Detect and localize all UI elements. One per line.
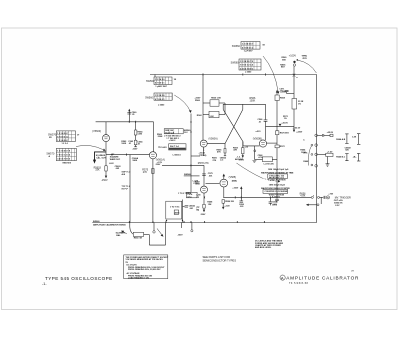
svg-text:5W560: 5W560 bbox=[145, 96, 153, 99]
wire cathode down bbox=[203, 147, 205, 156]
wire stub bbox=[191, 155, 200, 157]
svg-text:6 7 8 9 0 1: 6 7 8 9 0 1 bbox=[155, 83, 165, 85]
resistor R571 33.3k bbox=[292, 99, 297, 110]
svg-text:27K: 27K bbox=[143, 171, 148, 174]
svg-text:+2.4V: +2.4V bbox=[224, 204, 230, 207]
capacitor below bus A bbox=[275, 198, 279, 200]
svg-text:33K: 33K bbox=[95, 169, 100, 172]
capacitor C571 bbox=[285, 89, 289, 91]
wire stub down to V1 bbox=[105, 122, 107, 135]
svg-text:+225V: +225V bbox=[296, 131, 303, 133]
svg-text:6 7 8 9 0 1 2: 6 7 8 9 0 1 2 bbox=[57, 136, 69, 138]
svg-text:(V560A): (V560A) bbox=[209, 138, 218, 141]
svg-text:CAL. OUT: CAL. OUT bbox=[96, 157, 106, 160]
svg-text:L-572 5.6K: L-572 5.6K bbox=[264, 163, 275, 165]
svg-text:+103.5V: +103.5V bbox=[293, 127, 301, 129]
resistor right grid leak bbox=[242, 141, 244, 147]
wire output L to arrow bbox=[95, 152, 107, 161]
neon lamp NE56 bbox=[293, 61, 295, 63]
svg-text:1 2 3 4 5 6: 1 2 3 4 5 6 bbox=[155, 78, 165, 81]
switch wafer SW560B bbox=[145, 93, 172, 107]
wire cathode down bbox=[105, 142, 107, 155]
node -150V bbox=[105, 176, 107, 179]
svg-text:+ 560 2: + 560 2 bbox=[169, 140, 177, 142]
svg-text:5V P-P: 5V P-P bbox=[122, 188, 129, 190]
svg-text:+100V: +100V bbox=[232, 187, 239, 189]
svg-text:WAVEFORM SW660 ROTATED: WAVEFORM SW660 ROTATED bbox=[261, 187, 290, 190]
switch wafer top2 bbox=[231, 59, 261, 74]
top bus ticks bbox=[112, 74, 295, 156]
wire corner down to V2 bbox=[153, 122, 155, 152]
svg-text:6 7 8 9 0 1: 6 7 8 9 0 1 bbox=[155, 99, 165, 101]
wire cathode resistor chain bbox=[105, 155, 107, 166]
svg-text:-8.6V: -8.6V bbox=[109, 163, 114, 165]
resistor R660 5K bbox=[133, 232, 143, 236]
ganging curve top2 down bbox=[263, 56, 278, 92]
svg-text:TK 5/45/8-58: TK 5/45/8-58 bbox=[289, 283, 309, 285]
wire V5 to V6 link bbox=[206, 182, 220, 184]
svg-text:TYPE 545 OSCILLOSCOPE: TYPE 545 OSCILLOSCOPE bbox=[45, 276, 113, 281]
svg-text:27K: 27K bbox=[213, 160, 217, 162]
wire cathode down bbox=[203, 193, 205, 204]
svg-text:+25.8V: +25.8V bbox=[327, 132, 334, 134]
switch wafer SW570B bbox=[47, 148, 77, 164]
svg-text:L 5560: L 5560 bbox=[245, 72, 252, 74]
svg-text:-150V: -150V bbox=[200, 214, 206, 216]
svg-text:1 TO 7 KC: 1 TO 7 KC bbox=[170, 207, 180, 209]
switch wiper SW660 bal bbox=[129, 223, 131, 228]
bus junction ticks bbox=[129, 196, 277, 223]
wire bus A output line bbox=[223, 196, 311, 198]
svg-text:1MS 100μS 10μS 1μS: 1MS 100μS 10μS 1μS bbox=[268, 169, 289, 171]
svg-text:1 2 3 4 5 6 7 8: 1 2 3 4 5 6 7 8 bbox=[57, 150, 71, 153]
note box voltage readings bbox=[124, 255, 168, 279]
capacitor C656 bbox=[240, 197, 242, 200]
wire cathode network bbox=[253, 146, 255, 159]
title AMPLITUDE CALIBRATOR with circled A bbox=[280, 275, 285, 280]
svg-text:100K: 100K bbox=[121, 143, 126, 145]
svg-text:1 μSEC 5KC: 1 μSEC 5KC bbox=[155, 86, 167, 88]
svg-text:+41.5V: +41.5V bbox=[281, 122, 288, 125]
svg-text:7 8 9 0 1 2 3 4: 7 8 9 0 1 2 3 4 bbox=[240, 64, 254, 67]
divider tap +25.8V with capacitor C664 bbox=[317, 134, 322, 136]
svg-text:SW570 B: SW570 B bbox=[62, 162, 71, 164]
svg-text:-150V: -150V bbox=[155, 164, 161, 166]
svg-text:SW660: SW660 bbox=[184, 174, 191, 176]
svg-text:(TP560): (TP560) bbox=[199, 155, 207, 157]
svg-text:SW560: SW560 bbox=[146, 80, 155, 83]
ground bbox=[252, 160, 256, 162]
svg-text:-150V: -150V bbox=[132, 148, 138, 150]
svg-text:+75V: +75V bbox=[328, 194, 333, 196]
svg-text:4.7K: 4.7K bbox=[258, 156, 263, 159]
resistor chain R564 C564 bbox=[135, 122, 137, 130]
svg-text:56K: 56K bbox=[282, 59, 286, 61]
svg-text:1.2K: 1.2K bbox=[210, 116, 215, 118]
switch wafer top1 bbox=[232, 42, 266, 53]
svg-text:A-36573: A-36573 bbox=[272, 196, 281, 199]
capacitor C560 on grid bus bbox=[128, 111, 130, 122]
svg-text:47K: 47K bbox=[217, 151, 221, 154]
svg-text:100K: 100K bbox=[250, 100, 256, 103]
wire divider down to bus bbox=[129, 155, 131, 223]
svg-text:AMPLITUDE CALIBRATOR: AMPLITUDE CALIBRATOR bbox=[286, 276, 359, 281]
boxed subcircuit A305 bbox=[166, 201, 182, 219]
wire V6 cathode bbox=[223, 187, 225, 197]
svg-text:5W570: 5W570 bbox=[47, 152, 55, 155]
svg-text:7 8 9 0 1 2 3 4: 7 8 9 0 1 2 3 4 bbox=[57, 154, 71, 157]
switch wafer SW560A bbox=[146, 77, 177, 88]
tube V5 envelope bbox=[201, 186, 208, 193]
ganging curve wafer A down bbox=[174, 95, 190, 111]
svg-text:1 μF 5KV: 1 μF 5KV bbox=[244, 51, 253, 53]
svg-text:3 4 5 6 7 8 9 0: 3 4 5 6 7 8 9 0 bbox=[57, 158, 71, 161]
svg-text:VOLTAGES MEASURED AT PIN JACKS: VOLTAGES MEASURED AT PIN JACKS bbox=[126, 258, 164, 261]
svg-text:SW570: SW570 bbox=[48, 134, 57, 137]
svg-text:4.8K: 4.8K bbox=[300, 195, 305, 198]
svg-text:COUNTER CLOCKWISE: COUNTER CLOCKWISE bbox=[265, 191, 288, 193]
wire top +225V bus bbox=[150, 74, 317, 76]
svg-text:6 7 8 9 0 1 2: 6 7 8 9 0 1 2 bbox=[242, 47, 254, 49]
wire plate supply x203 bbox=[202, 75, 204, 141]
svg-text:180K: 180K bbox=[132, 160, 137, 162]
svg-text:1 2 3 4 5 6 7: 1 2 3 4 5 6 7 bbox=[57, 132, 69, 135]
svg-text:L 5600 4: L 5600 4 bbox=[173, 153, 182, 156]
svg-text:(V5600): (V5600) bbox=[92, 130, 101, 133]
ground bbox=[327, 157, 329, 164]
wire plate to X corner bbox=[207, 143, 225, 145]
svg-text:1 2 3 4 5 6: 1 2 3 4 5 6 bbox=[155, 94, 165, 97]
svg-text:WAVE 1KC: WAVE 1KC bbox=[110, 158, 121, 161]
svg-text:SW660: SW660 bbox=[93, 221, 100, 223]
wire right vertical SW660 wafer bus bbox=[316, 75, 318, 223]
svg-text:(V585): (V585) bbox=[229, 176, 237, 179]
svg-text:1%: 1% bbox=[298, 104, 301, 106]
wire -150V feed bbox=[162, 164, 204, 166]
svg-text:+100V: +100V bbox=[289, 55, 297, 58]
tube V560B grid line bbox=[243, 145, 260, 147]
svg-text:220K: 220K bbox=[158, 136, 163, 138]
svg-text:2-3V: 2-3V bbox=[335, 205, 340, 207]
resistor ladder bbox=[203, 102, 210, 104]
svg-text:1%: 1% bbox=[284, 118, 287, 120]
svg-text:R560 1.5K: R560 1.5K bbox=[211, 98, 221, 100]
svg-text:1 2 3 4 5 6 7: 1 2 3 4 5 6 7 bbox=[57, 139, 69, 142]
svg-text:TD 5-401: TD 5-401 bbox=[158, 146, 167, 149]
svg-text:R578 27K: R578 27K bbox=[198, 162, 209, 165]
svg-text:1.5M: 1.5M bbox=[138, 134, 143, 136]
svg-text:47K: 47K bbox=[233, 149, 237, 152]
tube V5600 bbox=[103, 135, 110, 142]
svg-text:SW560: SW560 bbox=[232, 45, 241, 48]
svg-text:L 5560: L 5560 bbox=[158, 105, 165, 107]
svg-text:20%: 20% bbox=[303, 153, 307, 155]
wire plate right bbox=[266, 142, 277, 144]
svg-text:A: A bbox=[281, 275, 284, 280]
svg-text:+41.5: +41.5 bbox=[255, 130, 261, 133]
svg-text:1 2 3 4 5 6 7 8: 1 2 3 4 5 6 7 8 bbox=[240, 60, 254, 63]
capacitor C658 bbox=[269, 197, 271, 201]
svg-text:R664 A-B: R664 A-B bbox=[336, 138, 345, 141]
svg-text:R586 220: R586 220 bbox=[225, 201, 235, 203]
svg-text:R570 91K: R570 91K bbox=[280, 133, 290, 135]
wiper arrow row2 bbox=[317, 204, 319, 206]
svg-text:+7.5V: +7.5V bbox=[327, 151, 333, 153]
svg-text:LOAD READING 7 ON: LOAD READING 7 ON bbox=[128, 276, 149, 279]
svg-text:WAVEFORMS OBTAINED AT TIME: WAVEFORMS OBTAINED AT TIME bbox=[261, 172, 294, 175]
svg-text:MV. TRIGGER: MV. TRIGGER bbox=[335, 196, 351, 199]
svg-text:120K: 120K bbox=[195, 184, 200, 186]
svg-text:(B58): (B58) bbox=[232, 181, 237, 183]
arrow out bbox=[93, 160, 96, 164]
svg-text:1.2K: 1.2K bbox=[352, 137, 357, 139]
resistor R666 tap +7.5V bbox=[317, 153, 325, 155]
node +225V arrow bbox=[293, 130, 295, 133]
svg-text:1 2 3 4 5 6 7: 1 2 3 4 5 6 7 bbox=[242, 43, 254, 46]
svg-text:15K: 15K bbox=[208, 204, 212, 206]
svg-text:A-B: A-B bbox=[122, 173, 126, 176]
svg-text:1 2 3 4: 1 2 3 4 bbox=[62, 142, 69, 145]
svg-text:(V561A): (V561A) bbox=[156, 158, 165, 161]
wire grid down to V5 bbox=[203, 165, 205, 186]
resistor chain R568 R570 R572 from +225V bbox=[276, 90, 278, 93]
wire bottom bus B (switch common) bbox=[92, 222, 316, 224]
coil box L660 bbox=[158, 144, 186, 157]
wire to grid node bbox=[266, 125, 295, 127]
ganging curve to V1 grid bbox=[76, 145, 104, 150]
svg-text:SEMICONDUCTOR TYPES: SEMICONDUCTOR TYPES bbox=[203, 258, 237, 262]
capacitor C660A bbox=[182, 200, 184, 223]
svg-text:-150V: -150V bbox=[101, 179, 108, 182]
svg-text:LR: LR bbox=[351, 271, 354, 273]
svg-text:ADJUST: ADJUST bbox=[235, 158, 244, 161]
switch contacts SW660 wafer bbox=[315, 134, 318, 137]
wire cross diagonals bbox=[223, 110, 243, 142]
wire grid horizontal y121.8 bbox=[96, 121, 154, 123]
svg-text:1MS 100μS 10μS: 1MS 100μS 10μS bbox=[269, 184, 286, 186]
wire bus stub to wafer A bbox=[154, 75, 156, 78]
tube V585 with plate arrow bbox=[223, 175, 225, 179]
output contacts and CAL OUT connector bbox=[311, 196, 313, 198]
svg-text:-1-: -1- bbox=[42, 282, 47, 286]
wire grid bias line bbox=[106, 154, 149, 156]
svg-text:504 T 5-4: 504 T 5-4 bbox=[170, 145, 180, 148]
node +100V arrow to bus A bbox=[240, 188, 242, 197]
svg-text:AMPLITUDE CALIBRATOR SW660: AMPLITUDE CALIBRATOR SW660 bbox=[93, 224, 127, 227]
svg-text:4 μSEC POSITION: 4 μSEC POSITION bbox=[268, 179, 286, 182]
svg-text:SW560: SW560 bbox=[231, 62, 240, 65]
wire x294 down bbox=[293, 66, 295, 98]
svg-text:10μS 1μS: 10μS 1μS bbox=[165, 132, 175, 134]
svg-text:58): 58) bbox=[196, 210, 199, 212]
switch wafer SW570A bbox=[48, 131, 80, 145]
resistor R5603 bbox=[105, 166, 107, 171]
capacitor C566 coupling bbox=[265, 104, 267, 119]
svg-text:3 4 5 6 7 8 9 0: 3 4 5 6 7 8 9 0 bbox=[240, 67, 254, 70]
svg-text:AND BUS LEVEL: AND BUS LEVEL bbox=[255, 246, 272, 249]
wire V2 cathode to bus B bbox=[152, 159, 154, 223]
wire top link bbox=[223, 103, 243, 105]
svg-text:R666 B-C: R666 B-C bbox=[336, 156, 346, 158]
svg-text:-150V: -150V bbox=[177, 234, 183, 236]
tube V561A bbox=[149, 152, 156, 159]
svg-text:(V560B): (V560B) bbox=[253, 137, 262, 140]
svg-text:FROM: READING 20%, 20,000 Ω/V: FROM: READING 20%, 20,000 Ω/V bbox=[128, 268, 161, 271]
